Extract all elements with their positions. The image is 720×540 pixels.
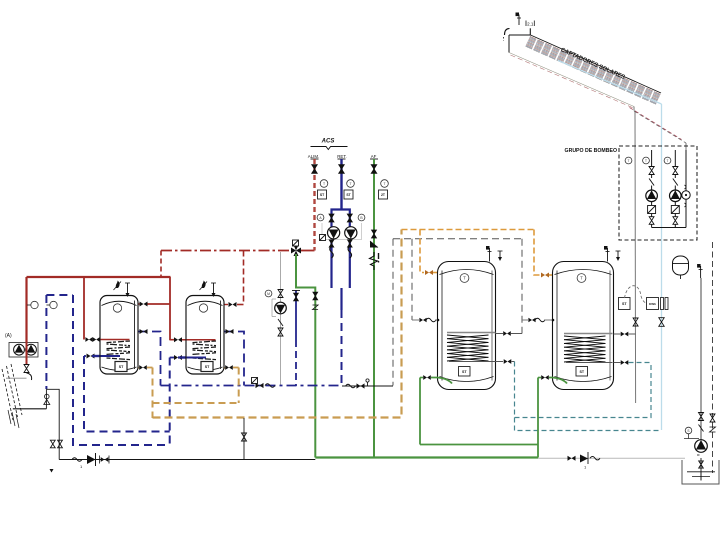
red line inside tank A bbox=[101, 339, 130, 341]
red drop to tank A bbox=[169, 277, 171, 340]
teal lower return bbox=[515, 418, 662, 431]
valve RET bbox=[339, 165, 345, 174]
boiler return line bbox=[13, 389, 50, 409]
sensor T tank D bbox=[577, 274, 586, 283]
pump group sensor S3 bbox=[664, 157, 671, 164]
valve tan tank A bbox=[139, 365, 147, 370]
svg-text:T: T bbox=[628, 159, 630, 163]
red riser to boiler pumps bbox=[25, 277, 27, 342]
cold feed bottom bbox=[59, 459, 315, 461]
RET split header bbox=[332, 210, 350, 289]
label B bbox=[358, 214, 365, 221]
solar collector hatch band bbox=[526, 36, 661, 104]
sensor T tank B bbox=[199, 304, 207, 312]
sensor T tank C bbox=[460, 274, 469, 283]
red supply header bbox=[161, 251, 290, 278]
pump group dashed enclosure bbox=[619, 146, 697, 240]
solar pump P2 branch bbox=[670, 150, 682, 228]
svg-text:ST: ST bbox=[462, 370, 467, 374]
blue left vertical V1 bbox=[45, 295, 47, 389]
blue recirc drop bbox=[295, 290, 297, 386]
valve gray top bbox=[278, 290, 283, 298]
air purger tank D bbox=[604, 246, 621, 262]
heat coil tank D bbox=[564, 334, 613, 363]
pump group bottom manifold bbox=[652, 227, 686, 229]
svg-text:M: M bbox=[267, 292, 270, 296]
solar return pipe from collector bbox=[509, 53, 635, 111]
green riser join bbox=[537, 445, 539, 458]
recirculation pump line right bbox=[699, 278, 704, 440]
fittings black return bbox=[346, 379, 370, 389]
gray bracket ACS pumps bbox=[322, 223, 362, 240]
box ST meter bbox=[619, 298, 631, 310]
blue tank B lower conn bbox=[170, 357, 192, 359]
svg-text:2.1: 2.1 bbox=[527, 21, 534, 26]
flex pump B bbox=[348, 246, 352, 258]
solar collector label CAPTADORES SOLARES bbox=[560, 47, 626, 81]
air purger right bbox=[697, 264, 703, 278]
pump group flow line bbox=[685, 150, 687, 228]
svg-text:S: S bbox=[687, 429, 689, 433]
heat exchanger tank A bbox=[107, 341, 131, 360]
dashed sensor arc bbox=[625, 286, 649, 304]
blue line inside tank A bbox=[101, 355, 121, 357]
red main horizontal bbox=[27, 276, 171, 278]
AF pipe bbox=[370, 159, 378, 458]
sensor T af bbox=[381, 180, 389, 188]
red drop left of tank A bbox=[83, 277, 85, 340]
valve red tank B top bbox=[229, 302, 237, 307]
svg-text:T: T bbox=[645, 159, 647, 163]
orange top header bbox=[402, 229, 535, 231]
green branch valve bbox=[313, 292, 319, 309]
coil top exit tank D bbox=[614, 332, 636, 337]
coil bottom exit tank C bbox=[496, 359, 515, 364]
pump group sensor S2 bbox=[643, 157, 650, 164]
red branch tank B left bbox=[170, 339, 216, 341]
red pump outlet bbox=[26, 342, 28, 364]
box KWh bbox=[647, 298, 659, 310]
valve AF bbox=[371, 165, 377, 174]
svg-text:T: T bbox=[349, 182, 351, 186]
black return to riser bbox=[342, 385, 393, 387]
RET pipe bbox=[338, 159, 346, 210]
heat exchanger tank B bbox=[193, 341, 217, 360]
boiler pump block bbox=[9, 343, 38, 358]
svg-text:ST: ST bbox=[205, 365, 210, 369]
valve below pumps bbox=[24, 365, 29, 373]
double valve tank A left bbox=[85, 337, 99, 342]
green main bbox=[315, 456, 538, 458]
box ST tank B bbox=[201, 362, 213, 372]
valve blue tank A bbox=[87, 354, 95, 359]
solar tank C body bbox=[438, 262, 496, 390]
green from mixing valve bbox=[296, 254, 315, 458]
valve blue tank B bbox=[174, 355, 182, 360]
svg-text:AF: AF bbox=[371, 154, 377, 159]
sensor T tank A bbox=[113, 304, 121, 312]
valve ACS pump B top bbox=[347, 214, 352, 222]
flame vent tank A bbox=[114, 281, 131, 298]
pump group flow meter bbox=[682, 185, 690, 207]
drain tank bottom right bbox=[682, 458, 719, 484]
sensor red flow bbox=[27, 301, 38, 308]
svg-text:ST: ST bbox=[579, 370, 584, 374]
valve ALIM bbox=[312, 165, 318, 174]
valve orange tank C bbox=[425, 270, 433, 275]
RET collector pipe bbox=[340, 288, 342, 386]
svg-text:T: T bbox=[667, 159, 669, 163]
solar feed tank C bbox=[412, 318, 439, 323]
DHW tank A body bbox=[100, 296, 138, 375]
boiler tie line bbox=[46, 389, 59, 459]
tan tank B outlet bbox=[214, 368, 239, 370]
sensor T alim bbox=[320, 180, 328, 188]
safety relief AF bbox=[370, 252, 379, 270]
check valve pump B bbox=[348, 240, 353, 247]
svg-text:KWh: KWh bbox=[649, 302, 656, 306]
blue left vertical V2 bbox=[73, 295, 170, 445]
blue return header bbox=[161, 385, 343, 387]
blue left vertical V3 bbox=[84, 356, 170, 432]
black dashed solar manifold bbox=[393, 238, 522, 240]
tan cross link bbox=[153, 402, 239, 404]
boiler hatch bbox=[2, 364, 22, 428]
valve tan tank B bbox=[225, 365, 233, 370]
valve gray line bbox=[633, 318, 638, 326]
ACS pump B bbox=[345, 227, 357, 239]
solar supply riser bbox=[634, 111, 637, 404]
check valve AF bbox=[370, 241, 378, 248]
tan tank A outlet bbox=[128, 368, 153, 370]
red header to ALIM valve bbox=[300, 250, 315, 252]
slant gray bbox=[278, 319, 283, 326]
air purger tank C bbox=[486, 246, 503, 262]
box ST af bbox=[379, 190, 388, 199]
orange into tank D bbox=[549, 274, 553, 276]
svg-text:ST: ST bbox=[119, 365, 124, 369]
label M bbox=[265, 290, 272, 297]
ALIM pipe bbox=[311, 159, 319, 251]
valve gray bottom bbox=[278, 328, 283, 336]
three way mixing valve bbox=[291, 245, 301, 256]
svg-text:GRUPO DE BOMBEO: GRUPO DE BOMBEO bbox=[565, 148, 617, 154]
svg-text:ALIM.: ALIM. bbox=[308, 154, 319, 159]
green feed tank D bbox=[538, 375, 567, 444]
ACS pump A bbox=[328, 227, 340, 239]
tan riser A bbox=[152, 368, 154, 419]
DHW tank B body bbox=[186, 296, 224, 375]
gray pump column bbox=[280, 252, 282, 386]
green feed tank C bbox=[420, 375, 452, 444]
flame vent tank B bbox=[200, 281, 217, 298]
heat coil tank C bbox=[447, 333, 496, 362]
solar drop tank C bbox=[411, 239, 413, 320]
valve pale line bbox=[659, 318, 664, 327]
sensor blue flow bbox=[46, 301, 57, 308]
green feed link bbox=[420, 444, 538, 446]
recirc pump bbox=[684, 434, 707, 455]
coil bottom exit tank D bbox=[614, 360, 652, 365]
valve AF mid bbox=[372, 230, 377, 238]
flex hook bbox=[27, 373, 32, 380]
valve blue tank A upper bbox=[140, 329, 148, 334]
red drop to tank B top bbox=[243, 251, 245, 305]
blue drop tank B bbox=[169, 358, 171, 446]
valve blue recirc bbox=[292, 291, 300, 301]
valve red tank B left bbox=[174, 337, 182, 342]
black drain drop bbox=[242, 418, 247, 460]
box ST tank C bbox=[459, 367, 471, 377]
check valve pump A bbox=[329, 240, 334, 247]
svg-text:T: T bbox=[383, 182, 385, 186]
safety box at mixing valve bbox=[293, 240, 299, 246]
pump group sensor S1 bbox=[625, 157, 632, 164]
drain valve pair bbox=[50, 440, 62, 448]
box ST tank A bbox=[115, 362, 127, 372]
valve red tank A bbox=[140, 302, 148, 307]
orange drop tank C bbox=[420, 230, 424, 273]
solar pale return line bbox=[558, 61, 662, 431]
expansion vessel bbox=[673, 256, 689, 279]
red stub into tank A left bbox=[99, 339, 130, 341]
cold water pipe right bbox=[538, 457, 685, 459]
solar pump P1 branch bbox=[646, 150, 658, 228]
valve ACS pump A top bbox=[329, 214, 334, 222]
box ST alim bbox=[318, 190, 327, 199]
blue bridge top bbox=[46, 294, 73, 296]
blue tank A upper return bbox=[138, 332, 161, 386]
fittings cold feed bbox=[72, 453, 109, 469]
svg-text:RET.: RET. bbox=[337, 154, 347, 159]
box ST ret bbox=[344, 190, 353, 199]
sensor S recirc bbox=[685, 427, 692, 434]
pump M bbox=[275, 302, 287, 314]
svg-text:T: T bbox=[580, 275, 583, 280]
teal series link bbox=[515, 362, 652, 418]
sensor T ret bbox=[347, 180, 355, 188]
boiler connection line bbox=[6, 377, 27, 379]
meter bars bbox=[661, 298, 669, 310]
svg-text:ACS: ACS bbox=[321, 139, 335, 145]
tan main return bbox=[153, 230, 402, 418]
valve blue tank B upper bbox=[226, 329, 234, 334]
solar pipes to pump group bbox=[630, 108, 687, 151]
solar collector outline bbox=[504, 28, 662, 93]
safety box right of ALIM bbox=[320, 235, 326, 241]
orange drop tank D bbox=[534, 230, 540, 276]
solar feed tank D bbox=[522, 318, 554, 323]
blue tank B upper return bbox=[224, 332, 244, 386]
black dashed riser bbox=[392, 239, 394, 386]
box ST tank D bbox=[576, 367, 588, 377]
tan riser B bbox=[238, 368, 240, 404]
ACS bracket bbox=[311, 139, 348, 150]
blue inside tank B bbox=[178, 356, 203, 358]
coil top exit tank C bbox=[496, 331, 523, 336]
svg-text:(A): (A) bbox=[5, 333, 12, 339]
orange into tank C bbox=[433, 272, 438, 274]
red branch tank B top bbox=[224, 304, 244, 306]
svg-text:ST: ST bbox=[622, 302, 627, 306]
svg-text:T: T bbox=[463, 275, 466, 280]
svg-text:T: T bbox=[323, 182, 325, 186]
expansion dashed line bbox=[710, 242, 716, 473]
bracket M bbox=[272, 299, 276, 317]
fittings cold right bbox=[568, 452, 601, 470]
drain arrow bbox=[50, 469, 54, 473]
blue line inside tank B bbox=[187, 357, 207, 359]
solar drop tank D bbox=[521, 239, 523, 334]
flex pump A bbox=[330, 246, 334, 258]
blue tank A lower conn bbox=[84, 355, 106, 357]
solar tank D body bbox=[553, 262, 614, 390]
motor valve on return bbox=[252, 378, 276, 389]
label A bbox=[317, 214, 324, 221]
collector air purger 2.1 bbox=[516, 13, 535, 27]
blue inside tank A bbox=[92, 355, 117, 357]
valve orange tank D bbox=[541, 273, 549, 278]
red branch tank A top bbox=[138, 303, 170, 305]
red line inside tank B bbox=[187, 339, 216, 341]
